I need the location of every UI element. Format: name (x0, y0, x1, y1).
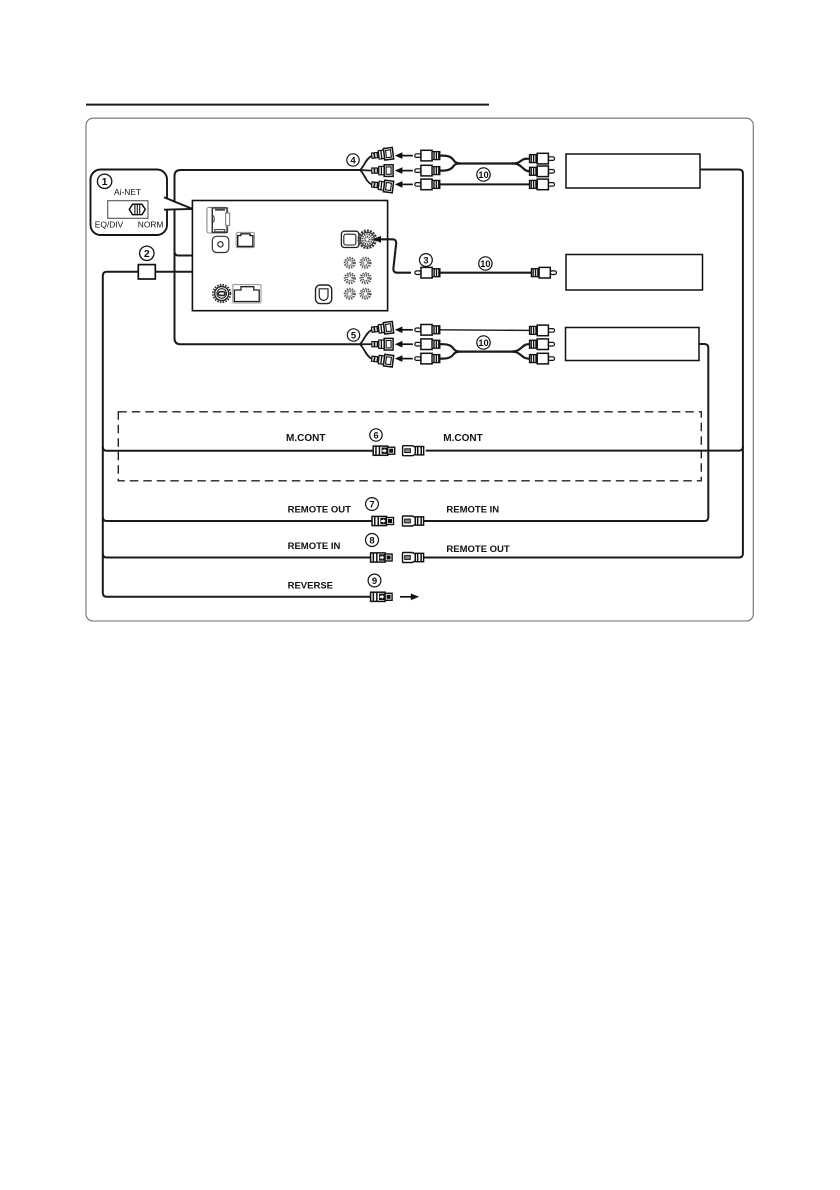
svg-text:Ai-NET: Ai-NET (114, 187, 141, 197)
right-end plug 10a row2 (530, 166, 555, 177)
wire branch from right riser to M.CONT right (426, 447, 743, 451)
svg-text:M.CONT: M.CONT (443, 433, 482, 444)
round DIN socket (359, 231, 376, 248)
arrowhead into round DIN socket (373, 236, 381, 243)
U-shaped connector on panel (316, 285, 332, 304)
terminal pair row 8 left (371, 553, 393, 562)
wire: from component 2 right into head unit connector (155, 253, 245, 272)
svg-text:EQ/DIV: EQ/DIV (95, 219, 124, 229)
circled number 8 (366, 534, 379, 547)
component 2 (inline box) (138, 265, 155, 279)
arrow into jack 5a (395, 327, 413, 334)
svg-text:REMOTE IN: REMOTE IN (288, 541, 341, 552)
svg-text:1: 1 (102, 176, 108, 188)
right-end plug 10a row1 (530, 153, 555, 164)
arrowhead up into connector (242, 243, 248, 253)
right-end plug 10c row1 (530, 325, 555, 336)
cable 10b (440, 272, 532, 274)
title underline rule (86, 104, 489, 106)
right-end plug 10c row2 (530, 339, 555, 350)
wire fan to 3 jacks of group 4 (360, 156, 372, 170)
svg-text:REVERSE: REVERSE (288, 581, 333, 592)
svg-text:10: 10 (478, 338, 488, 348)
svg-text:REMOTE IN: REMOTE IN (446, 504, 499, 515)
circled number 10 (bottom cable) (477, 336, 490, 349)
wire pair merging (rows 1-2 of cable 10a) (440, 156, 530, 164)
wire fan to 3 jacks of group 5 (360, 330, 372, 344)
wire: branch to M.CONT row (103, 447, 373, 451)
square DIN socket (341, 231, 359, 247)
group 5: circled number 5 (347, 329, 359, 342)
wire from round DIN socket to plug 3 (380, 239, 411, 272)
arrow into jack 4c (395, 181, 413, 188)
female jack 5c (371, 353, 394, 367)
amplifier box 1 (566, 154, 700, 188)
terminal pair row 8 right (403, 553, 424, 563)
outer diagram border (86, 118, 753, 621)
RCA jack grid on panel (345, 258, 356, 269)
svg-text:3: 3 (423, 256, 428, 267)
circled number 2 (140, 246, 154, 260)
amplifier box 3 (566, 328, 700, 361)
power connector on panel (233, 285, 261, 303)
wire: branch to row 8 (103, 554, 371, 558)
wire: from component 2 left, down the left side to rows 6-9 (103, 272, 371, 597)
circled number 7 (366, 498, 379, 511)
callout 1 tail (165, 198, 193, 210)
group 4: circled number 4 (347, 154, 359, 167)
circled number 6 (370, 429, 382, 442)
male plug 3 (left end of cable 10b) (415, 267, 440, 278)
female jack 4b (372, 165, 393, 177)
female jack 4a (371, 147, 394, 161)
male plug into 4a (415, 150, 440, 161)
terminal row 9 (371, 592, 393, 601)
right-end plug 10a row3 (530, 179, 555, 190)
wire from amp 3 down to row 7 (423, 344, 708, 521)
svg-text:4: 4 (350, 156, 356, 167)
RJ-type connector on panel (236, 232, 254, 247)
circled number 3 (420, 254, 433, 267)
male plug into 5b (415, 339, 440, 350)
wire row 3 of cable 10a (440, 183, 530, 185)
terminal pair row 6 left (373, 446, 395, 455)
svg-text:9: 9 (372, 576, 377, 587)
wire: head-unit lead shared by groups 4 and 5 (175, 170, 361, 344)
wire from amp 1 down right side to row 8 (422, 170, 743, 558)
circled number 10 (middle cable) (479, 257, 492, 270)
switch knob (129, 204, 145, 214)
callout balloon 1 (Ai-NET switch) (91, 170, 168, 236)
circled number 10 (top cable) (477, 168, 490, 181)
arrow into jack 4b (395, 167, 413, 174)
svg-text:NORM: NORM (138, 219, 164, 229)
switch housing (108, 201, 148, 219)
arrow into jack 5c (395, 355, 413, 362)
svg-text:5: 5 (351, 331, 357, 342)
male plug into 4c (415, 179, 440, 190)
female jack 4c (371, 179, 394, 193)
wire pair merging (rows 2-3 of cable 10c) (440, 344, 530, 351)
svg-text:10: 10 (480, 259, 490, 269)
head unit rear panel (192, 201, 387, 311)
dashed option box (118, 412, 701, 481)
arrow into jack 5b (395, 341, 413, 348)
male plug into 5c (415, 353, 440, 364)
svg-text:10: 10 (478, 170, 488, 180)
svg-text:8: 8 (369, 536, 374, 547)
wire: stub from shared lead into head unit (175, 252, 201, 256)
svg-text:REMOTE OUT: REMOTE OUT (288, 504, 352, 515)
terminal pair row 7 left (372, 516, 394, 525)
antenna jack (round) (213, 285, 231, 303)
small square connector with circle (212, 236, 229, 252)
male plug into 4b (415, 165, 440, 176)
svg-text:REMOTE OUT: REMOTE OUT (446, 544, 510, 555)
Ai-NET socket on panel (207, 207, 230, 233)
arrow into jack 4a (395, 152, 413, 159)
arrow right on row 9 (400, 594, 419, 601)
right-end plug of cable 10b (531, 267, 556, 278)
wire: branch to row 7 (103, 517, 372, 521)
wire row 1 of cable 10c (440, 329, 530, 332)
female jack 5a (371, 321, 394, 335)
terminal pair row 6 right (403, 446, 424, 456)
terminal pair row 7 right (403, 516, 424, 526)
circled number 9 (368, 574, 381, 587)
male plug into 5a (415, 325, 440, 336)
svg-text:7: 7 (369, 500, 374, 511)
right-end plug 10c row3 (530, 353, 555, 364)
female jack 5b (372, 338, 393, 350)
svg-text:M.CONT: M.CONT (286, 433, 325, 444)
circled number 1 (97, 174, 111, 188)
amplifier box 2 (566, 255, 703, 291)
svg-text:2: 2 (144, 248, 150, 260)
svg-text:6: 6 (373, 431, 378, 442)
